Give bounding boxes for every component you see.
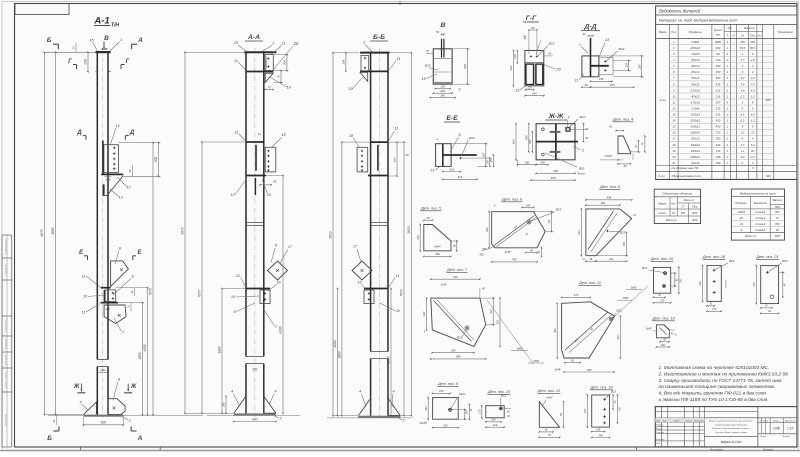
svg-text:Ø23: Ø23 [548, 42, 555, 46]
svg-text:Д: Д [76, 130, 82, 136]
svg-text:12: 12 [741, 131, 745, 135]
rib plate 13 triangle [104, 176, 123, 196]
svg-text:250: 250 [529, 139, 532, 145]
A-A lower break [246, 356, 264, 358]
svg-text:7070: 7070 [149, 288, 153, 295]
svg-text:480: 480 [716, 125, 721, 129]
svg-text:308: 308 [342, 59, 346, 64]
svg-text:8980: 8980 [715, 40, 722, 44]
svg-text:Дет. поз. 16: Дет. поз. 16 [650, 257, 674, 261]
svg-text:1267: 1267 [775, 235, 781, 238]
svg-text:4190: 4190 [143, 344, 147, 351]
svg-text:-5: -5 [751, 166, 754, 170]
svg-text:290: 290 [715, 64, 721, 68]
diamond plate 17 on A-A [268, 261, 288, 280]
svg-text:3. Сварку производить по ГОСТ: 3. Сварку производить по ГОСТ 14771-76, … [659, 378, 782, 384]
svg-text:6х45°: 6х45° [434, 245, 440, 248]
svg-text:710: 710 [716, 131, 721, 135]
svg-text:20: 20 [52, 419, 56, 423]
svg-text:Масса: Масса [773, 420, 780, 422]
svg-text:600: 600 [551, 176, 556, 180]
svg-text:-: - [733, 76, 734, 80]
svg-text:315: 315 [457, 175, 462, 179]
svg-text:360: 360 [716, 76, 721, 80]
bracket plate 14 on column A-1 [102, 141, 104, 174]
svg-text:Масса кг: Масса кг [772, 200, 783, 202]
svg-text:365: 365 [456, 355, 461, 359]
plate 8 polygon on column A-1 [111, 261, 129, 287]
svg-text:267: 267 [715, 100, 721, 104]
svg-text:марка А-1н/л: марка А-1н/л [721, 440, 742, 444]
svg-text:170: 170 [712, 308, 717, 311]
svg-text:240: 240 [439, 89, 445, 93]
svg-text:Колонны. Узлы крепления и дета: Колонны. Узлы крепления и детали. [712, 427, 750, 430]
svg-text:-: - [733, 64, 734, 68]
svg-text:6,3: 6,3 [740, 119, 744, 123]
svg-text:80: 80 [716, 52, 720, 56]
svg-text:1400: 1400 [517, 347, 523, 351]
svg-text:3,3: 3,3 [740, 76, 744, 80]
svg-text:Дет. поз. 6: Дет. поз. 6 [501, 198, 523, 202]
svg-text:-85х10: -85х10 [691, 76, 700, 80]
svg-text:216: 216 [715, 94, 721, 98]
svg-text:Дет. поз. 14: Дет. поз. 14 [589, 386, 612, 390]
column A-1 body [96, 52, 98, 359]
svg-text:11: 11 [672, 100, 675, 104]
svg-text:Дет. поз. 8: Дет. поз. 8 [599, 185, 621, 189]
svg-text:216: 216 [492, 423, 498, 427]
svg-text:3960: 3960 [338, 351, 342, 358]
svg-text:9070: 9070 [181, 227, 185, 234]
svg-text:216: 216 [448, 167, 454, 171]
Zh-Zh right dims [570, 128, 586, 130]
svg-text:1280: 1280 [692, 212, 698, 215]
baseline under column B-B [327, 417, 412, 419]
splice line A-A top [246, 71, 273, 73]
svg-text:Копировал: Копировал [710, 447, 723, 451]
assembly units table [654, 189, 700, 223]
svg-text:435: 435 [716, 82, 721, 86]
svg-text:-: - [733, 131, 734, 135]
svg-text:280: 280 [450, 348, 456, 352]
dims right top A-A [273, 54, 288, 56]
title block [655, 407, 797, 447]
svg-text:Д-Д: Д-Д [583, 24, 596, 31]
svg-text:320: 320 [496, 320, 500, 325]
svg-text:115: 115 [752, 282, 756, 287]
svg-text:-60х10: -60х10 [691, 137, 700, 141]
svg-text:Г: Г [126, 59, 130, 65]
svg-text:Дет. поз. 11: Дет. поз. 11 [578, 281, 601, 285]
svg-text:120: 120 [660, 300, 665, 303]
svg-text:2: 2 [741, 64, 744, 68]
svg-text:Общ: Общ [775, 206, 780, 209]
Zh-Zh bottom dims [517, 160, 519, 167]
svg-text:166: 166 [105, 307, 110, 311]
right dimension chain column A-1 [142, 303, 144, 415]
svg-text:-60х10: -60х10 [691, 64, 700, 68]
title block right cells [769, 418, 771, 434]
svg-text:4200: 4200 [279, 326, 283, 333]
svg-text:450: 450 [750, 40, 755, 44]
svg-text:2,3: 2,3 [750, 94, 755, 98]
svg-text:Г: Г [68, 59, 72, 65]
svg-text:4: 4 [274, 390, 276, 394]
svg-text:I 30Ш1: I 30Ш1 [691, 40, 700, 44]
svg-text:315: 315 [716, 113, 721, 117]
D-D web above [590, 38, 592, 56]
svg-text:Разраб.: Разраб. [656, 425, 664, 427]
svg-text:70: 70 [268, 85, 272, 89]
svg-text:760: 760 [512, 258, 517, 262]
svg-text:50: 50 [609, 125, 612, 129]
svg-text:-: - [733, 70, 734, 74]
bracket 18 on B-B [357, 147, 368, 172]
E-E dims [443, 171, 461, 173]
svg-text:Масштаб: Масштаб [785, 420, 796, 422]
svg-text:Согласовано: Согласовано [4, 239, 8, 255]
svg-text:4200: 4200 [333, 340, 337, 347]
Zh-Zh left dims [515, 124, 517, 160]
section G-G outline [525, 51, 544, 86]
column A-A cap plate [244, 51, 276, 53]
svg-text:-: - [733, 106, 734, 110]
svg-text:-: - [733, 88, 734, 92]
svg-text:Сборочные единицы: Сборочные единицы [662, 192, 692, 196]
svg-text:2: 2 [751, 64, 754, 68]
svg-text:Е-Е: Е-Е [446, 115, 458, 122]
svg-text:Т/Н: Т/Н [111, 23, 119, 29]
svg-text:и эмалью ПФ-1189 по ТУ6-10-171: и эмалью ПФ-1189 по ТУ6-10-1710-86 в два… [659, 397, 768, 403]
diamond plate 17 on B-B [352, 261, 372, 280]
svg-text:267: 267 [637, 64, 641, 70]
svg-text:430: 430 [463, 64, 467, 69]
svg-text:Д: Д [129, 130, 135, 136]
column A-1 centerline [102, 48, 104, 418]
svg-text:Справ.№: Справ.№ [4, 264, 8, 275]
dim 20 left base [56, 416, 58, 425]
svg-text:Подп. и дата: Подп. и дата [4, 371, 8, 388]
svg-text:248: 248 [715, 155, 721, 159]
svg-text:Лист: Лист [759, 436, 766, 438]
svg-text:4: 4 [231, 390, 233, 394]
A-A column break marks [246, 222, 264, 224]
splice line B-B top [360, 70, 388, 72]
svg-text:7070: 7070 [400, 289, 404, 296]
svg-text:640: 640 [681, 212, 686, 215]
svg-text:5х45°: 5х45° [646, 328, 652, 331]
base gusset 6 [108, 399, 125, 415]
svg-text:Ø23: Ø23 [728, 259, 735, 263]
triangle 19 B-B [360, 72, 368, 81]
column A-1 splice break [97, 359, 108, 361]
Zh-Zh flange line [536, 141, 578, 143]
svg-text:4,9: 4,9 [751, 88, 755, 92]
svg-text:Длина: Длина [713, 28, 722, 32]
svg-text:Подп.дата: Подп.дата [4, 319, 8, 333]
left dim chain B-B [332, 53, 334, 416]
svg-text:Сталь3: Сталь3 [756, 216, 766, 220]
svg-text:Лист: Лист [673, 421, 679, 423]
svg-text:308: 308 [283, 60, 287, 65]
svg-text:640: 640 [766, 174, 771, 178]
svg-text:44: 44 [582, 32, 586, 36]
leader line 1400/1890 from detail 6 [487, 300, 533, 364]
svg-text:14: 14 [672, 119, 676, 123]
svg-text:Кол.: Кол. [671, 203, 676, 206]
svg-text:315: 315 [716, 106, 721, 110]
svg-text:2: 2 [751, 161, 754, 165]
view V dims [452, 48, 469, 50]
svg-text:1890: 1890 [138, 352, 142, 359]
svg-text:100: 100 [661, 344, 666, 347]
svg-text:Н: Н [733, 34, 735, 37]
svg-text:Б: Б [47, 37, 52, 44]
svg-text:710: 710 [716, 149, 721, 153]
svg-text:100х600: 100х600 [726, 279, 728, 288]
B-B break marks [371, 222, 388, 224]
Zh-Zh anchor slots [550, 131, 561, 133]
svg-text:11: 11 [396, 274, 400, 278]
svg-text:1280: 1280 [773, 427, 780, 431]
svg-text:44: 44 [258, 132, 262, 136]
svg-text:450: 450 [740, 40, 745, 44]
svg-text:80: 80 [273, 180, 277, 184]
svg-text:246: 246 [597, 433, 603, 437]
top-left document number box [15, 4, 69, 15]
svg-text:11: 11 [236, 274, 240, 278]
row obratnaya marka [656, 171, 797, 173]
svg-text:20: 20 [750, 149, 755, 153]
svg-text:М25: М25 [425, 64, 431, 68]
svg-text:100: 100 [525, 160, 530, 164]
svg-text:13: 13 [751, 131, 755, 135]
svg-text:-: - [733, 100, 734, 104]
svg-text:1,7: 1,7 [740, 58, 744, 62]
svg-text:140: 140 [416, 235, 420, 240]
svg-text:Дата: Дата [698, 421, 705, 423]
svg-text:Дет. поз. 10: Дет. поз. 10 [487, 390, 511, 394]
svg-text:11: 11 [82, 311, 86, 315]
svg-text:-170х16: -170х16 [690, 100, 701, 104]
svg-text:А-1н: А-1н [659, 98, 666, 102]
svg-text:Выборка металла на лист: Выборка металла на лист [740, 191, 776, 195]
svg-text:600: 600 [716, 46, 721, 50]
svg-text:8х45°: 8х45° [555, 369, 561, 372]
svg-text:13: 13 [672, 113, 676, 117]
svg-text:150: 150 [622, 241, 626, 246]
right dim chain B-B [390, 289, 392, 416]
dim 500 right of bracket [118, 142, 160, 144]
base triangles 4 of B-B [359, 399, 371, 416]
svg-text:216: 216 [438, 389, 444, 393]
svg-text:103: 103 [624, 63, 628, 68]
fold marks below bottom frame [79, 447, 81, 451]
svg-text:-: - [733, 113, 734, 117]
svg-text:-: - [733, 119, 734, 123]
svg-text:4,9: 4,9 [740, 88, 744, 92]
svg-text:Т.контр.: Т.контр. [656, 432, 665, 434]
svg-text:Формат: Формат [763, 447, 774, 451]
bottom sheet edge shadow [0, 450, 800, 452]
svg-text:80: 80 [531, 26, 535, 30]
svg-text:11: 11 [395, 127, 399, 131]
svg-text:3: 3 [568, 116, 570, 120]
svg-text:240: 240 [531, 92, 537, 96]
svg-text:2: 2 [741, 100, 744, 104]
svg-text:Фасады. Виды, разрезы и узлы: Фасады. Виды, разрезы и узлы [715, 431, 747, 434]
svg-text:21: 21 [671, 161, 676, 165]
Zh-Zh base plate outline [536, 124, 575, 160]
svg-text:340: 340 [440, 93, 445, 97]
svg-text:1890: 1890 [218, 346, 222, 353]
E-E flange rect [436, 144, 452, 167]
svg-text:-: - [733, 82, 734, 86]
dim 600 base A-A [234, 421, 276, 423]
svg-text:Добыча сурьмяно-ртутных руд на: Добыча сурьмяно-ртутных руд на месте [709, 420, 754, 423]
svg-text:Ж: Ж [130, 384, 137, 390]
view V outline [433, 49, 452, 84]
svg-text:230: 230 [715, 161, 721, 165]
view V base strip [432, 82, 453, 84]
bracket 21 on A-A [265, 55, 273, 71]
svg-text:-: - [733, 125, 734, 129]
svg-text:105: 105 [486, 160, 489, 165]
svg-text:7,4: 7,4 [740, 82, 744, 86]
svg-text:4отв.: 4отв. [578, 172, 586, 176]
svg-text:120: 120 [528, 86, 533, 90]
svg-text:-150х12: -150х12 [690, 125, 701, 129]
svg-text:Стадия: Стадия [760, 419, 769, 422]
svg-text:182: 182 [609, 257, 614, 261]
svg-text:3,3: 3,3 [751, 76, 755, 80]
svg-text:-80х12: -80х12 [691, 70, 700, 74]
svg-text:400: 400 [524, 135, 528, 140]
svg-text:17: 17 [672, 137, 676, 141]
svg-text:185: 185 [526, 203, 531, 207]
svg-text:1/1: 1/1 [672, 212, 676, 215]
svg-text:200: 200 [99, 368, 105, 372]
svg-text:Г-Г: Г-Г [526, 15, 537, 22]
baseline extension [48, 415, 203, 417]
svg-text:Ø27: Ø27 [579, 115, 586, 119]
svg-text:Ø23: Ø23 [618, 47, 625, 51]
metal selection table [731, 189, 784, 240]
title block header band fill [655, 418, 704, 423]
svg-text:11: 11 [431, 169, 435, 173]
svg-text:106: 106 [596, 428, 601, 431]
svg-text:Пров.: Пров. [656, 428, 662, 430]
svg-text:-160х10: -160х10 [690, 131, 701, 135]
svg-text:-250х10: -250х10 [690, 46, 701, 50]
svg-text:Ø23: Ø23 [610, 390, 617, 394]
svg-text:7079: 7079 [198, 290, 202, 297]
gusset plate 12 edge [101, 173, 123, 175]
svg-text:9070: 9070 [40, 229, 44, 236]
svg-text:600: 600 [252, 417, 258, 421]
dim 298 [87, 52, 89, 71]
column B-B body [370, 53, 372, 352]
svg-text:10: 10 [72, 46, 76, 50]
svg-text:-180х12: -180х12 [690, 155, 701, 159]
svg-text:В: В [104, 35, 109, 42]
svg-text:1890: 1890 [533, 359, 539, 363]
svg-text:7,4: 7,4 [751, 82, 755, 86]
svg-text:Ж: Ж [73, 384, 80, 390]
G-G left dims [516, 51, 518, 63]
G-G bolt dots [530, 55, 532, 57]
left margin column cells [1, 235, 3, 447]
svg-text:Общ: Общ [750, 34, 755, 37]
svg-text:А-1н/л: А-1н/л [657, 211, 666, 215]
svg-text:Материал: см. табл. Выборка ме: Материал: см. табл. Выборка металла на л… [659, 19, 738, 23]
svg-text:Утв.: Утв. [656, 443, 661, 445]
svg-text:-180х12: -180х12 [690, 149, 701, 153]
svg-text:20х45°: 20х45° [419, 422, 428, 425]
svg-text:15: 15 [672, 125, 676, 129]
svg-text:170: 170 [477, 409, 481, 414]
G-G top dims [529, 29, 537, 31]
svg-text:-170х10: -170х10 [690, 88, 701, 92]
svg-text:Дет. поз. 12: Дет. поз. 12 [537, 389, 561, 393]
svg-text:20: 20 [671, 155, 676, 159]
svg-text:-150х10: -150х10 [690, 119, 701, 123]
svg-text:-: - [733, 40, 734, 44]
svg-text:Масса кг: Масса кг [744, 26, 756, 30]
svg-text:-: - [733, 155, 734, 159]
svg-text:рожденной фракции Хайдаркан: рожденной фракции Хайдаркан [714, 423, 748, 426]
svg-text:Дет. поз. 9: Дет. поз. 9 [437, 382, 459, 386]
svg-text:1890: 1890 [387, 356, 391, 363]
svg-text:50: 50 [405, 153, 409, 157]
svg-text:9010: 9010 [329, 231, 333, 238]
svg-text:14: 14 [115, 124, 119, 128]
svg-text:90: 90 [427, 216, 430, 220]
svg-text:Ж-Ж: Ж-Ж [548, 113, 565, 120]
D-D flange rect [582, 56, 599, 77]
svg-text:315: 315 [716, 88, 721, 92]
svg-text:А: А [137, 435, 143, 442]
svg-text:-: - [733, 94, 734, 98]
base plate A-A [234, 413, 276, 415]
svg-text:5,1: 5,1 [751, 143, 755, 147]
svg-text:Ø23: Ø23 [458, 392, 465, 396]
right dim chain A-A [282, 176, 284, 414]
svg-text:В: В [441, 22, 446, 29]
svg-text:Профиль: Профиль [689, 30, 702, 34]
svg-text:2: 2 [672, 46, 675, 50]
svg-text:I 30Ш1: I 30Ш1 [737, 210, 746, 214]
svg-text:Примечание: Примечание [778, 30, 793, 34]
svg-text:2: 2 [726, 58, 729, 62]
svg-text:А-1: А-1 [93, 16, 109, 27]
right dims at E zone [116, 287, 149, 289]
svg-text:337: 337 [489, 309, 493, 314]
svg-text:Поз.: Поз. [671, 30, 676, 34]
svg-text:11: 11 [575, 79, 579, 83]
svg-text:-85х10: -85х10 [691, 58, 700, 62]
svg-text:-85х25: -85х25 [691, 82, 700, 86]
base plate B-B [358, 416, 400, 418]
svg-text:Ø23: Ø23 [555, 208, 562, 212]
svg-text:200: 200 [715, 137, 721, 141]
svg-text:60: 60 [624, 164, 627, 168]
svg-text:-10: -10 [739, 222, 743, 226]
svg-text:-25: -25 [739, 216, 743, 220]
svg-text:20: 20 [293, 41, 299, 46]
svg-text:Ø23: Ø23 [641, 266, 648, 270]
svg-text:28: 28 [635, 145, 638, 149]
